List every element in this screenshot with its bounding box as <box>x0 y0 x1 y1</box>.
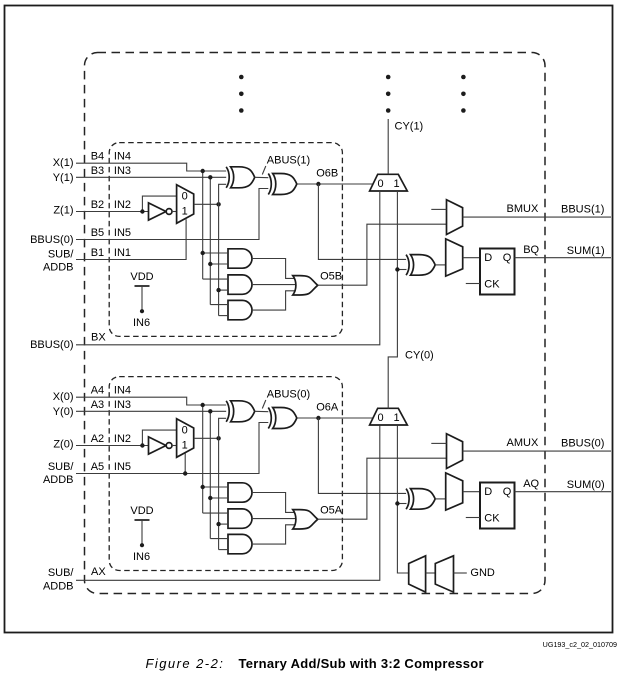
outer dashed slice boundary box <box>85 53 546 594</box>
wire AND1 input a <box>203 252 228 254</box>
continuation dots column 2 <box>461 75 466 113</box>
svg-text:A2: A2 <box>91 433 104 445</box>
junction mux output to Z vertical <box>216 202 220 206</box>
wire GND stub <box>454 572 467 574</box>
continuation dots column 1 <box>386 75 391 113</box>
wire carry mux A 1-input down to GND buffers <box>397 425 408 573</box>
xor gate XORCYB (sum) <box>411 255 436 276</box>
svg-text:CY(1): CY(1) <box>395 120 424 132</box>
wire O6A branch down to XORCY <box>318 418 406 493</box>
and gate AND1A <box>228 483 252 502</box>
wire ABUS(0) XOR1 to XOR2 <box>255 410 269 412</box>
wire AND2 output to OR <box>252 284 297 286</box>
svg-text:Figure 2-2:: Figure 2-2: <box>146 656 225 671</box>
junction CY(0) to XORCY B <box>395 267 399 271</box>
svg-text:0: 0 <box>378 178 384 190</box>
inner dashed LUT box (bottom slice A) <box>109 377 342 571</box>
wire X(1) to IN4 (stepped) <box>76 163 227 171</box>
svg-text:IN5: IN5 <box>114 461 131 473</box>
wire AND3 input a <box>210 538 228 540</box>
svg-text:AQ: AQ <box>523 478 539 490</box>
svg-text:SUM(0): SUM(0) <box>567 479 605 491</box>
wire CY(0) from carry mux A up to carry mux B 1-input <box>388 191 397 409</box>
svg-text:A3: A3 <box>91 399 104 411</box>
mux ZMUXB 0/1 polarity select <box>177 185 194 224</box>
wire inverter output to mux 1 input <box>172 445 177 447</box>
svg-text:SUB/: SUB/ <box>48 461 75 473</box>
svg-text:D: D <box>484 486 492 498</box>
wire O5A to output mux <box>318 458 447 519</box>
svg-text:O5A: O5A <box>320 504 343 516</box>
svg-text:BBUS(0): BBUS(0) <box>30 234 73 246</box>
node SUB/ADDB input label (slice B) <box>43 248 74 273</box>
wire Z bypass branch to mux 0 input <box>142 196 176 211</box>
junction X at IN4 wire <box>201 403 205 407</box>
terminal dot IN6 <box>140 309 144 313</box>
wire Z bypass branch to mux 0 input <box>142 430 176 445</box>
junction X at IN4 wire <box>201 169 205 173</box>
svg-text:1: 1 <box>394 178 400 190</box>
wire Z vertical with top link to XOR1 <box>219 418 227 549</box>
wire AND1 input b <box>210 497 228 499</box>
flip-flop FFB <box>480 249 515 295</box>
stub BMUX upper input <box>431 208 446 210</box>
svg-text:IN1: IN1 <box>114 247 131 259</box>
svg-text:B1: B1 <box>91 247 104 259</box>
junction Z to AND2 <box>216 522 220 526</box>
caption Figure 2-2 <box>146 656 484 671</box>
wire AND1 input a <box>203 486 228 488</box>
wire BX to carry mux B 0-input <box>76 191 380 345</box>
wire AND1 input b <box>210 263 228 265</box>
wire sum mux to flip-flop D <box>463 491 480 493</box>
junction Z to AND2 <box>216 288 220 292</box>
wire Y vertical <box>209 411 211 538</box>
junction CYINIT to XORCY A <box>395 501 399 505</box>
wire CY(0) branch to XORCY B <box>397 269 406 271</box>
svg-text:B5: B5 <box>91 227 104 239</box>
xor gate XOR1A (X^Y^Z) <box>231 401 255 422</box>
xor gate XOR1B (X^Y^Z) <box>231 167 255 188</box>
power VDD bar symbol <box>135 285 150 287</box>
wire O6B to carry mux <box>297 183 373 185</box>
junction Z branch <box>140 209 144 213</box>
wire AND3 output to OR <box>252 525 296 544</box>
svg-text:D: D <box>484 252 492 264</box>
svg-text:ABUS(1): ABUS(1) <box>267 155 310 167</box>
svg-text:1: 1 <box>182 205 188 217</box>
wire mux output <box>194 437 219 439</box>
wire sum mux to flip-flop D <box>463 257 480 259</box>
svg-text:0: 0 <box>182 191 188 203</box>
wire SUB/ADDB to IN1 and up to mux select <box>76 219 186 259</box>
junction Y at IN3 wire <box>208 175 212 179</box>
wire SUB/ADDB to IN5, to mux select and up to XOR2 input <box>76 423 269 474</box>
svg-text:BBUS(1): BBUS(1) <box>561 203 604 215</box>
svg-text:CK: CK <box>484 512 500 524</box>
svg-text:IN4: IN4 <box>114 385 131 397</box>
svg-text:IN2: IN2 <box>114 199 131 211</box>
xor gate XOR2A (ABUS^BUS) <box>273 408 297 429</box>
svg-text:IN4: IN4 <box>114 151 131 163</box>
wire Y vertical <box>209 177 211 304</box>
wire CYINIT branch to XORCY A <box>397 503 406 505</box>
wire BQ flip-flop output to SUM(1) <box>515 257 612 259</box>
node SUB/ADDB label at AX <box>43 567 74 592</box>
svg-text:Z(1): Z(1) <box>53 204 73 216</box>
stub AMUX upper input <box>431 442 446 444</box>
label ABUS(0) with pointer tick <box>262 389 310 409</box>
wire Z(0) to IN2 inverter <box>76 445 149 447</box>
svg-text:Q: Q <box>503 252 512 264</box>
svg-text:SUM(1): SUM(1) <box>567 245 605 257</box>
svg-text:X(1): X(1) <box>53 157 74 169</box>
and gate AND3A <box>228 534 252 553</box>
junction X to AND1 <box>201 251 205 255</box>
mux CYMUXB (carry select) <box>370 174 408 191</box>
and gate AND2A <box>228 509 252 528</box>
wire O6B branch down to XORCY <box>318 184 406 259</box>
svg-text:BBUS(0): BBUS(0) <box>30 339 73 351</box>
wire AND2 input b <box>219 523 228 525</box>
svg-text:AX: AX <box>91 566 106 578</box>
junction Z branch <box>140 443 144 447</box>
junction Y to AND1 <box>208 262 212 266</box>
wire AND1 output to OR <box>252 259 296 279</box>
svg-text:B3: B3 <box>91 165 104 177</box>
stub flip-flop CK input <box>466 517 480 519</box>
mux CYMUXA (carry select) <box>370 408 408 425</box>
mux BMUX output mux <box>447 200 463 235</box>
wire AND3 output to OR <box>252 291 296 310</box>
terminal dot IN6 <box>140 543 144 547</box>
junction IN5 select tap <box>183 471 187 475</box>
svg-text:ADDB: ADDB <box>43 262 74 274</box>
continuation dots column 0 <box>239 75 244 113</box>
svg-text:BMUX: BMUX <box>507 203 539 215</box>
svg-text:BX: BX <box>91 331 106 343</box>
wire AQ flip-flop output to SUM(0) <box>515 491 612 493</box>
svg-text:1: 1 <box>182 439 188 451</box>
or gate ORB (majority) <box>293 276 318 295</box>
wire AND2 input b <box>219 289 228 291</box>
mux SUMMUXB <box>446 239 463 276</box>
wire AND3 input b <box>219 549 228 551</box>
svg-text:1: 1 <box>394 412 400 424</box>
junction Y to AND1 <box>208 496 212 500</box>
svg-text:Z(0): Z(0) <box>53 438 73 450</box>
and gate AND1B <box>228 249 252 268</box>
wire BBUS(0) to IN5 and up to XOR2 input <box>76 189 269 240</box>
xor gate XORCYA (sum) <box>411 489 436 510</box>
or gate ORA (majority) <box>293 510 318 529</box>
svg-text:B4: B4 <box>91 151 104 163</box>
wire AX to carry mux A 0-input <box>76 425 380 580</box>
wire Y(1) to IN3 <box>76 176 227 178</box>
node SUB/ADDB input label (slice A) <box>43 461 74 486</box>
svg-text:GND: GND <box>470 567 495 579</box>
wire AND3 input b <box>219 315 228 317</box>
wire Z vertical with top link to XOR1 <box>219 184 227 315</box>
svg-text:Y(1): Y(1) <box>53 172 74 184</box>
wire AND1 output to OR <box>252 493 296 513</box>
wire IN5 tap up to mux select <box>184 453 186 473</box>
wire Y(0) to IN3 <box>76 410 227 412</box>
wire mux output <box>194 203 219 205</box>
svg-text:IN3: IN3 <box>114 165 131 177</box>
power VDD bar symbol <box>135 519 150 521</box>
wire AND2 input a <box>203 278 228 280</box>
svg-text:Q: Q <box>503 486 512 498</box>
svg-text:Y(0): Y(0) <box>53 406 74 418</box>
svg-text:IN5: IN5 <box>114 227 131 239</box>
junction mux output to Z vertical <box>216 436 220 440</box>
svg-text:0: 0 <box>378 412 384 424</box>
inverter on Z(1) <box>149 203 167 220</box>
svg-text:BQ: BQ <box>523 244 539 256</box>
mux SUMMUXA <box>446 473 463 510</box>
svg-text:O6B: O6B <box>316 167 338 179</box>
wire O5B to output mux <box>318 224 447 285</box>
label ABUS(1) with pointer tick <box>262 155 310 175</box>
mux ZMUXA 0/1 polarity select <box>177 419 194 458</box>
wire AND3 input a <box>210 304 228 306</box>
wire X vertical <box>202 171 204 279</box>
svg-text:B2: B2 <box>91 199 104 211</box>
svg-text:O6A: O6A <box>316 401 339 413</box>
svg-text:ADDB: ADDB <box>43 581 74 593</box>
junction O6A branch <box>316 416 320 420</box>
wire AND2 input a <box>203 512 228 514</box>
wire X vertical <box>202 405 204 513</box>
junction O6B branch <box>316 182 320 186</box>
wire BMUX output to BBUS <box>463 216 611 218</box>
mux GND buffer 2 <box>435 556 453 592</box>
xor gate XOR2B (ABUS^BUS) <box>273 174 297 195</box>
svg-text:X(0): X(0) <box>53 391 74 403</box>
svg-text:BBUS(0): BBUS(0) <box>561 437 604 449</box>
svg-text:0: 0 <box>182 425 188 437</box>
inverter on Z(0) <box>149 437 167 454</box>
svg-text:A5: A5 <box>91 461 104 473</box>
wire VDD to IN6 <box>141 286 143 311</box>
wire CY(1) carry out upward <box>387 119 389 174</box>
svg-text:IN6: IN6 <box>133 317 150 329</box>
and gate AND2B <box>228 275 252 294</box>
svg-text:VDD: VDD <box>130 271 153 283</box>
wire X(0) to IN4 (stepped) <box>76 397 227 405</box>
and gate AND3B <box>228 300 252 319</box>
svg-text:O5B: O5B <box>320 270 342 282</box>
stub flip-flop CK input <box>466 283 480 285</box>
svg-text:UG193_c2_02_010709: UG193_c2_02_010709 <box>543 640 617 649</box>
wire XORCY output to sum mux <box>435 264 446 266</box>
junction X to AND1 <box>201 485 205 489</box>
svg-text:IN2: IN2 <box>114 433 131 445</box>
svg-text:A4: A4 <box>91 385 104 397</box>
svg-text:ADDB: ADDB <box>43 474 74 486</box>
wire VDD to IN6 <box>141 520 143 545</box>
wire Z(1) to IN2 inverter <box>76 211 149 213</box>
wire O6A to carry mux <box>297 417 373 419</box>
wire GND buffer link <box>426 572 436 574</box>
junction Y at IN3 wire <box>208 409 212 413</box>
wire AND2 output to OR <box>252 518 297 520</box>
inner dashed LUT box (top slice B) <box>109 143 342 337</box>
svg-text:IN3: IN3 <box>114 399 131 411</box>
mux AMUX output mux <box>447 434 463 469</box>
mux GND buffer 1 <box>409 556 426 592</box>
svg-text:VDD: VDD <box>130 505 153 517</box>
svg-text:IN6: IN6 <box>133 551 150 563</box>
svg-text:CK: CK <box>484 278 500 290</box>
svg-text:SUB/: SUB/ <box>48 248 75 260</box>
wire AMUX output to BBUS <box>463 450 611 452</box>
svg-text:Ternary Add/Sub with 3:2 Compr: Ternary Add/Sub with 3:2 Compressor <box>239 656 484 671</box>
flip-flop FFA <box>480 483 515 529</box>
wire ABUS(1) XOR1 to XOR2 <box>255 176 269 178</box>
svg-text:SUB/: SUB/ <box>48 567 75 579</box>
svg-text:ABUS(0): ABUS(0) <box>267 389 310 401</box>
svg-text:AMUX: AMUX <box>507 437 539 449</box>
svg-text:CY(0): CY(0) <box>405 350 434 362</box>
wire inverter output to mux 1 input <box>172 211 177 213</box>
wire XORCY output to sum mux <box>435 498 446 500</box>
